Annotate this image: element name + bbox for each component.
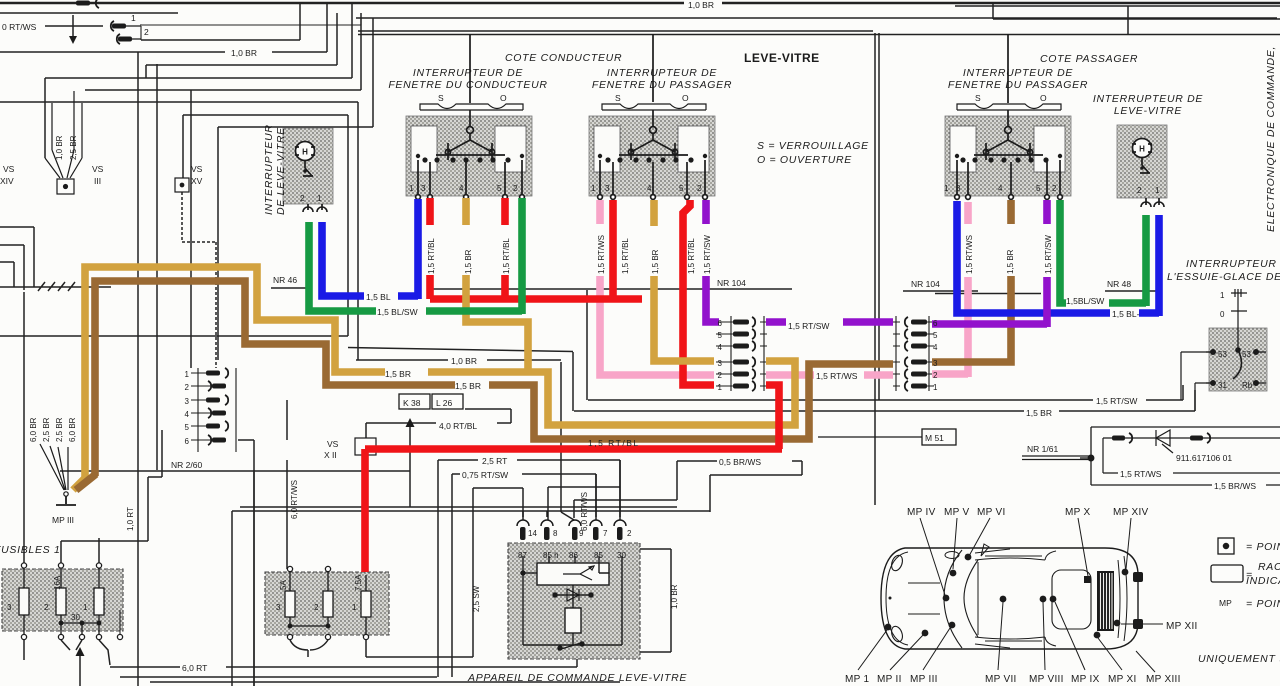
svg-text:XV: XV [191,176,203,186]
svg-text:1,0 BR: 1,0 BR [231,48,257,58]
car vent oval [945,552,959,559]
wire NR48 underline [1105,290,1162,292]
wiper switch internals [1181,289,1266,411]
svg-text:X II: X II [324,450,337,460]
svg-text:6,0 RT/WS: 6,0 RT/WS [580,492,589,531]
wire datum line NR104 [430,288,792,290]
svg-text:MP: MP [1219,598,1232,608]
svg-text:2: 2 [513,184,518,193]
svg-text:2: 2 [44,603,49,612]
svg-text:1,0 BR: 1,0 BR [670,584,679,609]
K38 L26 boxes [399,394,463,409]
svg-text:O: O [500,93,507,103]
svg-text:1,5 BR: 1,5 BR [464,249,473,274]
svg-text:85: 85 [594,551,603,560]
rotated wire labels [29,135,1053,612]
svg-text:INTERRUPTEUR DE: INTERRUPTEUR DE [413,67,524,79]
wire green 1,5 BL/SW [309,198,1146,314]
svg-text:2,5 BR: 2,5 BR [69,135,78,160]
wire K38 hook [366,409,511,507]
svg-text:911.617106 01: 911.617106 01 [1176,453,1232,463]
wire 6,0 RT/WS drop [286,400,288,569]
svg-text:1,5 RT/SW: 1,5 RT/SW [1096,396,1137,406]
wire 1,5 BR line right [573,352,1195,411]
node VS XV drop [182,192,216,368]
car body [881,548,1138,649]
svg-text:4: 4 [647,184,652,193]
svg-text:INDICAT: INDICAT [1246,575,1280,587]
switch internals [295,34,1164,212]
wire stair 5 [85,13,361,368]
car headlights [890,554,905,572]
svg-text:S: S [975,93,981,103]
relay box appareil [508,543,640,659]
svg-text:S: S [438,93,444,103]
svg-text:APPAREIL DE COMMANDE LEVE-VITR: APPAREIL DE COMMANDE LEVE-VITRE [467,672,687,684]
wire gold sw1 pin4 [466,198,714,375]
svg-text:5: 5 [933,331,938,340]
svg-text:MP V: MP V [944,507,969,518]
wire pink 1,5 RT/WS [600,200,968,377]
wire sw2 stem [652,34,654,102]
car hood lines [908,583,940,614]
svg-text:MP X: MP X [1065,507,1090,518]
wire stair 4 [45,4,352,158]
svg-text:1,5 BR: 1,5 BR [385,369,411,379]
wire bus top 2 [0,13,1277,18]
wire sw1 stem [469,34,471,103]
wire left col verticals bottom [253,470,255,686]
switch S5 leve-vitre right box [1117,125,1167,198]
svg-text:4: 4 [459,184,464,193]
svg-text:NR 46: NR 46 [273,275,297,285]
svg-text:3: 3 [7,603,12,612]
wire red bus [365,198,782,572]
wire fuse1 leads [24,640,110,686]
svg-text:2: 2 [1052,184,1057,193]
svg-text:0,75 RT/SW: 0,75 RT/SW [462,470,508,480]
svg-text:= POINT: = POINT [1246,541,1280,553]
M51 box [818,429,956,445]
svg-text:MP II: MP II [877,674,902,685]
relay labels [518,529,632,560]
switch S1 mechanism [411,126,526,199]
svg-text:3: 3 [605,184,610,193]
svg-text:MP XII: MP XII [1166,621,1198,632]
switch S4 mechanism [950,126,1065,199]
svg-text:1,5 BR: 1,5 BR [1026,408,1052,418]
svg-text:4: 4 [185,410,190,419]
switch S5 motor symbol [1132,139,1164,208]
svg-text:1: 1 [718,383,723,392]
svg-text:S = VERROUILLAGE: S = VERROUILLAGE [757,140,869,152]
wire 0,75 RT/SW bracket [452,474,596,677]
wire NR2/60 drop right [238,440,254,686]
connector top-left pair [69,21,141,44]
svg-text:31: 31 [1218,381,1227,390]
svg-text:2: 2 [933,371,938,380]
svg-text:1,5 BR: 1,5 BR [651,249,660,274]
svg-text:6,0 RT: 6,0 RT [182,663,207,673]
svg-text:2: 2 [697,184,702,193]
svg-text:0,5 BR/WS: 0,5 BR/WS [719,457,761,467]
svg-text:6: 6 [185,437,190,446]
svg-text:1: 1 [83,603,88,612]
MP dots [885,554,1129,639]
svg-text:8: 8 [553,529,558,538]
MP leader lines [858,518,1163,672]
MP labels [845,507,1198,685]
svg-text:1: 1 [352,603,357,612]
svg-text:5: 5 [1036,184,1041,193]
svg-text:1,5 RT/SW: 1,5 RT/SW [703,235,712,274]
fuse box 1 internals [19,563,123,640]
svg-text:5A: 5A [279,580,288,590]
svg-text:MP XIII: MP XIII [1146,674,1181,685]
svg-text:1,5 RT/BL: 1,5 RT/BL [621,238,630,274]
car rear window [1052,570,1091,629]
wire relay pin stems [523,518,620,520]
switch S4 bracket [957,104,1061,110]
node tick bus MP [0,282,111,291]
fuse labels [7,603,357,622]
svg-text:1,5 RT/BL: 1,5 RT/BL [687,238,696,274]
svg-text:2: 2 [300,194,305,203]
svg-text:53: 53 [1218,350,1227,359]
wire pin14 feed [473,488,523,657]
svg-text:1: 1 [131,13,136,23]
svg-text:1,0 RT: 1,0 RT [126,507,135,531]
car bumper blocks [1133,572,1143,629]
switch S1 bracket [420,104,523,110]
wire 2,5 RT bracket [438,460,620,677]
svg-text:COTE PASSAGER: COTE PASSAGER [1040,53,1138,65]
svg-text:6: 6 [933,319,938,328]
wire relay bus drop left [231,511,233,686]
svg-text:7: 7 [603,529,608,538]
svg-text:85 h: 85 h [543,551,559,560]
VS XII box [355,438,376,455]
svg-text:LEVE-VITRE: LEVE-VITRE [1114,105,1183,117]
svg-text:5: 5 [718,331,723,340]
car antenna [981,544,989,556]
svg-text:1,5 BL-: 1,5 BL- [1112,309,1140,319]
svg-text:6,0 RT/WS: 6,0 RT/WS [290,480,299,519]
svg-text:5: 5 [497,184,502,193]
car roof [975,558,1045,639]
wire top right corner [955,2,1280,34]
svg-text:VS: VS [92,164,104,174]
svg-text:DE LEVE-VITRE: DE LEVE-VITRE [275,127,287,215]
svg-text:2: 2 [185,383,190,392]
switch S3 leve-vitre left box [283,128,333,204]
svg-text:MP VII: MP VII [985,674,1017,685]
wire stair 7 [0,102,358,360]
svg-text:MP XIV: MP XIV [1113,507,1149,518]
switch S3 motor symbol [295,142,327,213]
VS XIV funnel [45,91,82,194]
fuse box 2 internals [285,566,371,639]
car door lines [975,549,1010,648]
svg-text:NR 1/61: NR 1/61 [1027,444,1058,454]
arrow 4,0 RT/BL [406,418,415,427]
svg-text:16A: 16A [53,575,62,590]
svg-text:3: 3 [956,184,961,193]
svg-text:4: 4 [933,343,938,352]
svg-text:INTERRUPTEUR DE: INTERRUPTEUR DE [607,67,718,79]
svg-text:6: 6 [718,319,723,328]
svg-text:K 38: K 38 [403,398,421,408]
wire 1,5 RT/SW line right [587,290,1183,400]
svg-text:= POINT: = POINT [1246,598,1280,610]
svg-text:7,5A: 7,5A [354,574,363,591]
svg-text:L 26: L 26 [436,398,453,408]
connector ST pins 1-2 top left [141,18,361,40]
svg-text:LEVE-VITRE: LEVE-VITRE [744,51,820,65]
connector on top bus [76,0,99,8]
svg-text:1,0 BR: 1,0 BR [55,135,64,160]
svg-text:1: 1 [1155,186,1160,195]
svg-text:2,5 SW: 2,5 SW [472,585,481,612]
svg-text:53: 53 [1242,350,1251,359]
svg-text:14: 14 [528,529,537,538]
svg-text:1,5 RT/BL: 1,5 RT/BL [502,238,511,274]
svg-text:MP IX: MP IX [1071,674,1100,685]
wire fusebox2 leads [290,640,328,657]
svg-text:1,5 RT/BL: 1,5 RT/BL [427,238,436,274]
switch pin numbers [300,184,1160,203]
colored wires [73,198,1159,572]
wire 1,0 BR mid line [348,348,573,361]
svg-text:FENETRE DU CONDUCTEUR: FENETRE DU CONDUCTEUR [388,79,547,91]
svg-text:86: 86 [569,551,578,560]
wire gold 1,5 BR main loop [73,267,795,490]
svg-text:3: 3 [718,359,723,368]
svg-text:3: 3 [933,359,938,368]
svg-text:2: 2 [144,27,149,37]
svg-text:2: 2 [1137,186,1142,195]
svg-text:2,5 RT: 2,5 RT [482,456,507,466]
svg-text:NR 2/60: NR 2/60 [171,460,202,470]
wire 0 RT/WS lead [45,15,103,40]
svg-text:MP VI: MP VI [977,507,1006,518]
svg-text:1,5 BR: 1,5 BR [455,381,481,391]
svg-text:4: 4 [718,343,723,352]
car windshield [944,550,978,648]
svg-text:ELECTRONIQUE DE COMMANDE,: ELECTRONIQUE DE COMMANDE, [1265,46,1277,232]
svg-text:1,5 BL/SW: 1,5 BL/SW [377,307,418,317]
svg-text:NR 104: NR 104 [717,278,746,288]
wire 2,5 SW vertical [366,640,473,657]
svg-text:2: 2 [627,529,632,538]
svg-text:0 RT/WS: 0 RT/WS [2,22,37,32]
svg-text:1,5 RT/WS: 1,5 RT/WS [965,235,974,274]
car engine grille [1097,571,1114,631]
svg-text:30: 30 [71,613,80,622]
svg-text:1: 1 [1220,291,1225,300]
wiper labels [1218,291,1253,390]
switch S2 box [589,116,715,196]
VS XV box [175,178,189,192]
svg-text:1: 1 [933,383,938,392]
car top view [858,518,1163,672]
svg-text:Rb: Rb [1242,381,1253,390]
svg-text:O: O [1040,93,1047,103]
node MP III [40,444,76,505]
svg-text:III: III [94,176,101,186]
svg-text:RACC: RACC [1258,561,1280,573]
svg-text:MP III: MP III [52,515,74,525]
wire NR104-2 underline [903,291,1041,294]
svg-text:INTERRUPTEUR: INTERRUPTEUR [263,124,275,215]
svg-text:1,5 BR: 1,5 BR [1006,249,1015,274]
svg-text:INTERRUPTEUR DE: INTERRUPTEUR DE [963,67,1074,79]
svg-text:3: 3 [276,603,281,612]
connector pins relay [517,460,626,540]
fuse box 1 [2,569,123,631]
svg-text:INTERRUPTEUR DE: INTERRUPTEUR DE [1093,93,1204,105]
wire bus top 1 [0,2,1280,4]
svg-text:MP IV: MP IV [907,507,936,518]
wire relay bus [232,507,710,511]
svg-text:O: O [682,93,689,103]
connector numbers [185,319,938,446]
svg-text:6,0 BR: 6,0 BR [29,417,38,442]
wire bus top 3 (double) [358,31,1280,35]
wire bottom rail [120,677,620,682]
svg-text:1,5 RT/WS: 1,5 RT/WS [816,371,858,381]
svg-text:COTE CONDUCTEUR: COTE CONDUCTEUR [505,52,622,64]
svg-text:6,0 BR: 6,0 BR [68,417,77,442]
svg-text:1,5 BR/WS: 1,5 BR/WS [1214,481,1256,491]
svg-text:30: 30 [617,551,626,560]
svg-text:5: 5 [679,184,684,193]
switch S1 driver window box [406,116,532,196]
wire divider cote passager [875,33,879,505]
svg-text:2,5 BR: 2,5 BR [42,417,51,442]
svg-text:2: 2 [718,371,723,380]
svg-text:INTERRUPTEUR DE: INTERRUPTEUR DE [1186,258,1280,270]
svg-text:1: 1 [317,194,322,203]
switch S2 bracket [602,104,706,110]
svg-text:5: 5 [185,423,190,432]
switch S2 mechanism [594,126,709,199]
arrow fuse lead [76,647,85,656]
svg-text:S: S [615,93,621,103]
svg-text:NR 48: NR 48 [1107,279,1131,289]
svg-text:1: 1 [944,184,949,193]
svg-text:1,5 RT/WS: 1,5 RT/WS [1120,469,1162,479]
svg-text:3: 3 [185,397,190,406]
diode assembly NR1/61 [1022,427,1280,485]
svg-text:1,5 RT/SW: 1,5 RT/SW [788,321,829,331]
wiper switch box [1209,328,1267,391]
svg-text:1,5BL/SW: 1,5BL/SW [1066,296,1104,306]
svg-text:1,5 BL: 1,5 BL [366,292,391,302]
svg-text:2: 2 [314,603,319,612]
wire fuse2 feeds [24,292,162,565]
svg-text:MP VIII: MP VIII [1029,674,1064,685]
wire 1,0 BR branch [0,4,327,52]
svg-text:VS: VS [191,164,203,174]
svg-text:1,5 RT/BL: 1,5 RT/BL [588,438,640,448]
svg-text:NR 104: NR 104 [911,279,940,289]
wire left edge brackets [0,227,34,290]
svg-text:UNIQUEMENT 93: UNIQUEMENT 93 [1198,653,1280,665]
wire frame around sw3 [0,115,348,336]
wire 0,5 BR/WS path [574,461,802,518]
svg-text:1: 1 [591,184,596,193]
fuse box 2 [265,572,389,635]
svg-text:H: H [302,148,308,157]
svg-text:1: 1 [409,184,414,193]
svg-text:MP III: MP III [910,674,938,685]
wire brown 6,0 BR main loop [76,200,1011,490]
svg-text:VS: VS [3,164,15,174]
wire NR2/60 line [60,470,410,472]
svg-text:MP XI: MP XI [1108,674,1137,685]
svg-text:L'ESSUIE-GLACE DE LA: L'ESSUIE-GLACE DE LA [1167,271,1280,283]
svg-text:FUSIBLES 1: FUSIBLES 1 [0,544,61,556]
svg-text:H: H [1139,145,1145,154]
svg-text:87: 87 [518,551,527,560]
wire blue 1,5 BL [322,199,1159,316]
legend [1211,538,1243,582]
svg-text:3: 3 [421,184,426,193]
svg-text:FENETRE DU PASSAGER: FENETRE DU PASSAGER [948,79,1088,91]
svg-text:VS: VS [327,439,339,449]
car rear deck [985,551,1127,646]
switch S4 passenger box [945,116,1071,196]
svg-text:4: 4 [998,184,1003,193]
svg-text:1,0 BR: 1,0 BR [451,356,477,366]
wire left long verticals [138,52,157,686]
wire NR46 underline [271,287,312,289]
wire purple 1,5 RT/SW [706,200,1047,327]
connector NR104-1 6pin [716,316,767,391]
wire stair 3 [146,13,337,78]
wire 6,0 RT bus [110,549,671,667]
svg-text:MP 1: MP 1 [845,674,869,685]
svg-text:XIV: XIV [0,176,14,186]
svg-text:M 51: M 51 [925,433,944,443]
svg-text:1,0 BR: 1,0 BR [688,0,714,10]
svg-text:4,0 RT/BL: 4,0 RT/BL [439,421,477,431]
svg-text:1,5 RT/WS: 1,5 RT/WS [597,235,606,274]
svg-text:0: 0 [1220,310,1225,319]
svg-text:1: 1 [185,370,190,379]
wire center drop to relay [561,362,574,520]
svg-text:1,5 RT/SW: 1,5 RT/SW [1044,235,1053,274]
wire cascade stair left [141,4,300,40]
wire sw4 stem [1007,34,1009,103]
svg-text:O = OUVERTURE: O = OUVERTURE [757,154,852,166]
relay internals [521,556,622,650]
connector NR104-2 6pin [893,316,934,391]
switch boxes group [2,116,1267,659]
connector NR2/60 6pin left [191,368,236,452]
wire stair 6 [218,18,373,360]
wire pin8 feed [548,487,620,518]
svg-text:FENETRE DU PASSAGER: FENETRE DU PASSAGER [592,79,732,91]
svg-text:9: 9 [579,529,584,538]
svg-text:2,5 BR: 2,5 BR [55,417,64,442]
